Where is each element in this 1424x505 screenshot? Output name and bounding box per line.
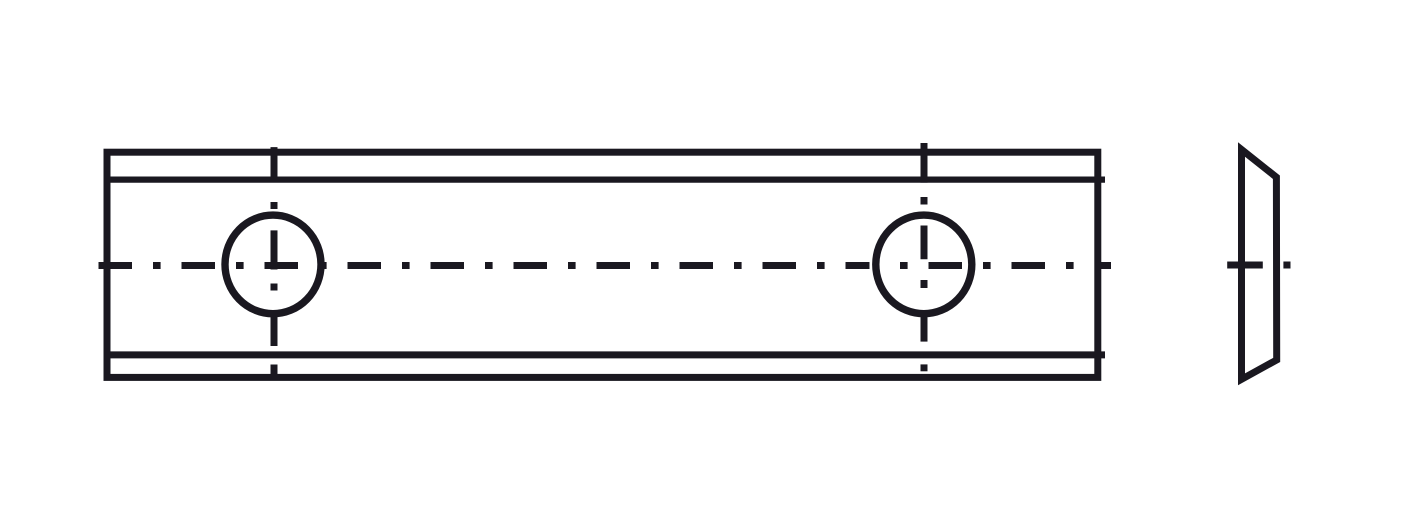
hole H1 vertical centerline: dot above circle [271, 202, 278, 209]
hole H2 vertical centerline: segment below circle [921, 311, 928, 342]
hole H2 vertical centerline: dot between bottom lines [921, 364, 928, 371]
side view centerline: dot [1283, 262, 1290, 269]
hole H2 vertical centerline: top tick [921, 143, 928, 183]
side view blade profile [1242, 150, 1277, 380]
hole H1 vertical centerline: dot below center [271, 284, 278, 291]
horizontal centerline (dash-dot) [99, 262, 1112, 269]
gap in centerline before hole H2 edge [870, 261, 873, 270]
hole H1 vertical centerline: top tick [271, 147, 278, 182]
hole H2 vertical centerline: dot below center [921, 280, 928, 288]
hole H2 circle [876, 215, 972, 314]
hole H2 vertical centerline: center bar [921, 226, 928, 260]
hole H2 vertical centerline: dot above circle [921, 197, 928, 205]
top bevel line (upper inner horizontal line) [104, 177, 1105, 183]
hole H1 vertical centerline: bottom tick [271, 365, 278, 381]
bottom bevel line (lower inner horizontal line) [104, 351, 1105, 358]
side view centerline: dash [1227, 262, 1263, 269]
front view outer outline [107, 152, 1098, 377]
hole H1 vertical centerline: segment below circle [271, 311, 278, 346]
hole H1 vertical centerline: center bar [271, 230, 278, 269]
hole H1 circle [225, 215, 321, 314]
